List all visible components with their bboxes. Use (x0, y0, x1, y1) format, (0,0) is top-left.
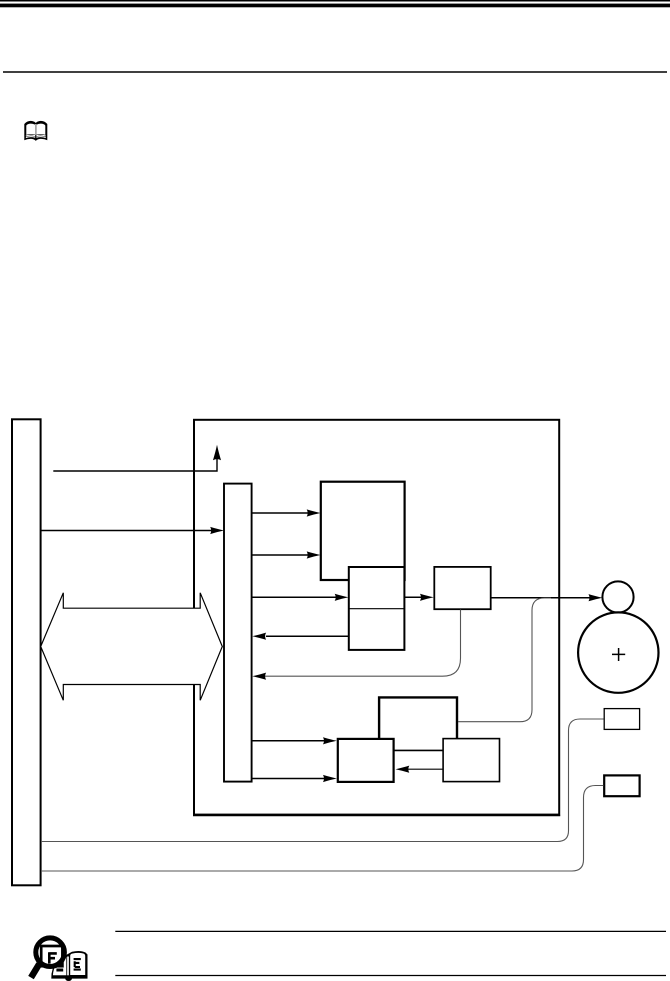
driver block (434, 567, 490, 609)
book left page (53, 957, 66, 975)
wire: upper line with up arrow (53, 459, 217, 472)
wire: connector 1 routed to host block (41, 719, 604, 842)
wire: bus to lower left block (upper) (252, 740, 325, 742)
header rule (3, 71, 667, 73)
wire: bus to middle block (252, 596, 337, 598)
footnote rule lower (115, 975, 666, 977)
wire: bus to top block (upper) (252, 512, 309, 514)
book spine tab (65, 976, 72, 981)
motor body circle (578, 612, 658, 692)
lower right block (443, 739, 499, 782)
bidirectional bus arrow (41, 593, 223, 701)
magnifier handle (31, 964, 39, 978)
book page dash (56, 969, 63, 972)
wire: middle block to driver block (405, 596, 423, 598)
wire: bus to top block (lower) (252, 554, 309, 556)
middle stacked block divider (349, 608, 405, 610)
book right page (70, 953, 85, 975)
wire: driver feedback to bus (265, 610, 461, 677)
wire: sensor block to motor line (458, 598, 551, 722)
sensor block (bold) (379, 697, 457, 745)
sensor connector 1 (604, 709, 639, 730)
host interface bus (left tall rectangle) (12, 419, 41, 885)
sensor block bottom edge (visible in gap) (393, 749, 444, 751)
top title bar (0, 4, 670, 8)
wire: connector 2 routed to host block (41, 786, 604, 872)
middle stacked block (349, 567, 405, 650)
document under lens (41, 946, 62, 966)
motor pinion circle (602, 581, 633, 612)
magnifier ring (36, 938, 65, 967)
motor center cross (612, 648, 625, 661)
lower left block (338, 739, 394, 782)
internal bus (narrow vertical rectangle) (224, 484, 252, 782)
wire: bus to lower left block (lower) (252, 778, 325, 780)
top processor block (321, 482, 405, 580)
wire: arrow into internal bus (41, 530, 212, 532)
footnote search icon (magnifier over book) (31, 938, 88, 981)
top hairline rule (0, 0, 670, 2)
controller outer box (194, 420, 559, 815)
letter F on document (49, 952, 57, 963)
wire: lower right to lower left arrow (408, 768, 443, 770)
wire: driver to motor (491, 597, 590, 599)
sensor connector 2 (bold) (604, 775, 639, 796)
footnote rule upper (115, 930, 666, 932)
book spine gap (67, 957, 69, 976)
wire: middle block back to bus (266, 635, 349, 637)
book page letter E (74, 959, 81, 970)
controller outer box bottom (thick) (193, 815, 560, 817)
open-book note icon (24, 121, 47, 141)
book cover silhouette (51, 951, 87, 979)
